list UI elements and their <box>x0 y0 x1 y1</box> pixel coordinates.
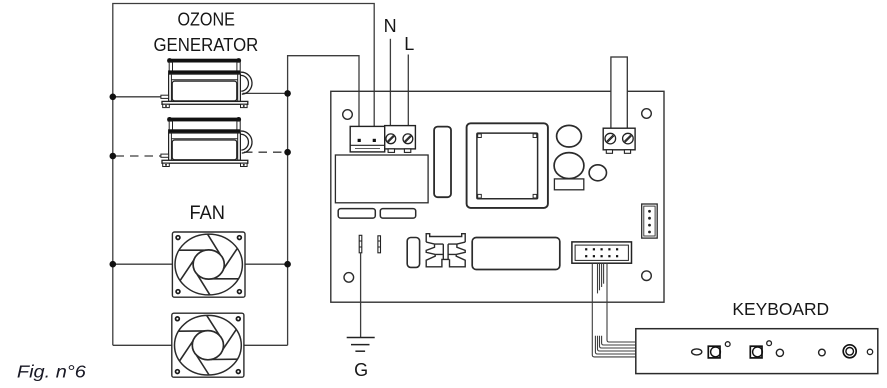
junction : generator 2 left <box>110 153 117 160</box>
junction : fan 1 left <box>110 261 117 268</box>
wire : generator 2 left lead (dashed) <box>116 155 163 157</box>
capacitor (tall rounded rect) <box>434 127 451 198</box>
svg-text:FAN: FAN <box>189 203 225 224</box>
connector : input terminal block left half (pins) <box>350 126 385 151</box>
keyboard hole 2 <box>819 349 826 356</box>
wire duct to output terminal <box>611 57 627 128</box>
transformer module (large rect) <box>335 155 428 203</box>
wire : fan 1 right lead <box>245 263 288 265</box>
relay 1 (small rounded rect) <box>338 209 375 219</box>
connector : 4-pin header <box>642 204 658 238</box>
svg-text:G: G <box>354 360 368 380</box>
wire : ground lead <box>360 253 362 338</box>
ribbon cable to keyboard <box>592 263 636 357</box>
ground symbol G <box>347 338 375 381</box>
mounting hole <box>343 110 353 120</box>
svg-text:L: L <box>404 34 414 54</box>
keyboard button 2 <box>750 346 762 358</box>
pin header : ground pin 1 <box>359 235 362 253</box>
svg-text:KEYBOARD: KEYBOARD <box>732 299 829 319</box>
mounting hole <box>642 271 652 281</box>
mounting hole <box>642 109 652 119</box>
svg-text:OZONE: OZONE <box>177 9 235 29</box>
pin 1 <box>373 139 376 142</box>
keyboard led 2 <box>767 341 772 346</box>
junction : generator 1 left <box>110 94 117 101</box>
wire : L to terminal screw 2 <box>407 55 409 137</box>
fuse (capsule) <box>407 238 419 268</box>
keyboard button 1 <box>708 346 720 358</box>
transformer (large square) <box>467 123 548 208</box>
keyboard led 1 <box>725 342 730 347</box>
wire : N to terminal screw 1 <box>389 39 391 137</box>
wire : bottom bend to fan 2 left <box>113 344 172 346</box>
svg-text:N: N <box>384 16 397 36</box>
keyboard hole 1 <box>776 349 783 356</box>
fan 1 <box>172 232 245 297</box>
power resistor (large rounded rect) <box>472 238 560 270</box>
relay 2 (small rounded rect) <box>380 209 415 219</box>
connector : output terminal block (screws) <box>603 128 635 153</box>
svg-text:Fig. n°6: Fig. n°6 <box>17 362 86 382</box>
wire : outer loop left/top, net to terminal pin 2 <box>113 4 374 346</box>
wire : generator 1 right lead <box>243 92 288 94</box>
mounting hole <box>344 273 354 283</box>
junction : generator 2 right <box>284 149 291 156</box>
pin header : ground pin 2 <box>378 236 381 253</box>
keyboard panel <box>636 329 878 374</box>
resistor (small rect) <box>554 179 583 190</box>
wire : generator 1 left lead <box>113 96 162 98</box>
label OZONE GENERATOR <box>154 9 259 55</box>
fan 2 <box>172 313 244 377</box>
PCB board outline <box>331 91 664 302</box>
keyboard hole 3 <box>867 349 872 354</box>
transformer : ozone generator 2 <box>161 117 252 167</box>
junction : generator 1 right <box>284 90 291 97</box>
connector : 2x5 ribbon header <box>572 242 632 263</box>
pin 2 <box>358 139 361 142</box>
heatsink <box>426 234 465 267</box>
wire : bottom bend to fan 2 right <box>244 344 288 346</box>
svg-text:GENERATOR: GENERATOR <box>154 35 259 55</box>
wire : generator 2 right lead (dashed) <box>244 151 288 153</box>
capacitor C (large ellipse) <box>554 153 584 179</box>
wire : fan 1 left lead <box>113 263 173 265</box>
keyboard jumper (oval) <box>692 349 702 355</box>
transformer : ozone generator 1 <box>161 58 252 108</box>
connector : input terminal block right half (screws N, L) <box>385 126 416 153</box>
wire : right-side net to terminal pin 1 <box>288 56 359 346</box>
capacitor C (top ellipse) <box>557 125 582 147</box>
keyboard buzzer (double circle) <box>843 345 856 358</box>
capacitor small circle <box>589 165 606 181</box>
junction : fan 1 right <box>284 261 291 268</box>
